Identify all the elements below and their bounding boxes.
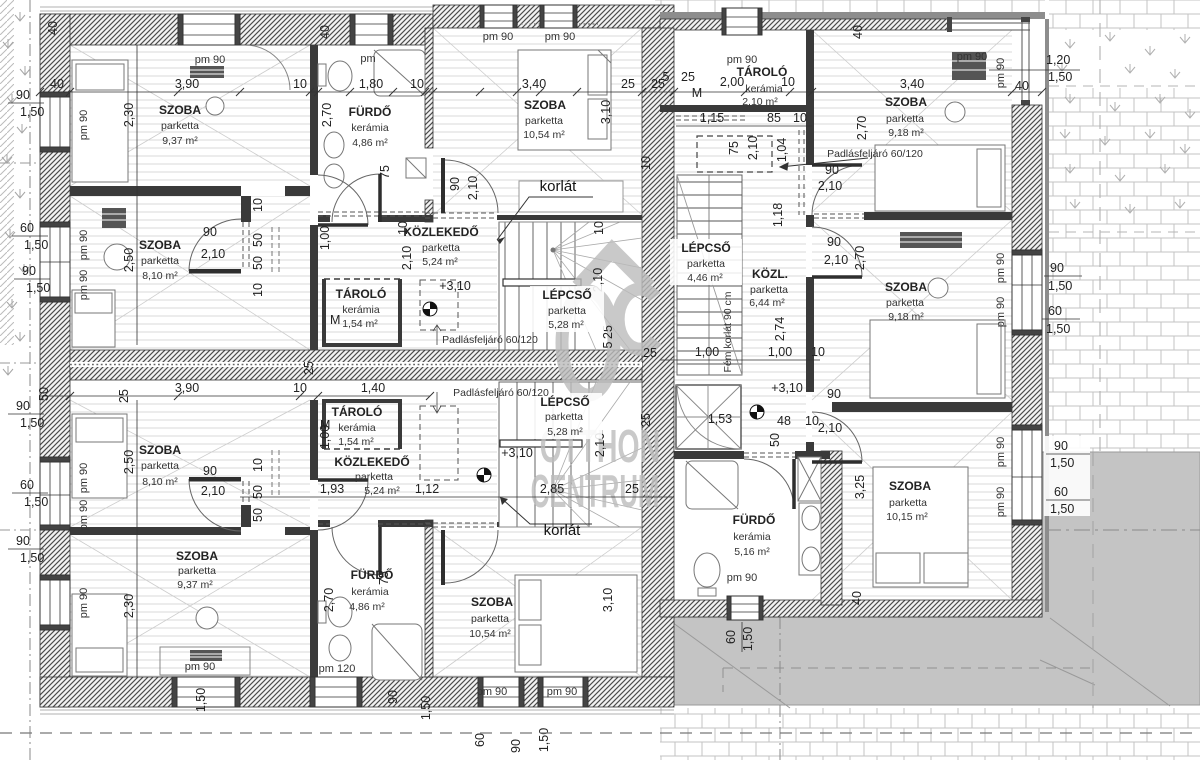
left margin dim stacks (8, 88, 50, 565)
window right wall W14 double (1012, 250, 1042, 335)
door arc corridor/SZOBA 8,10 lower (318, 480, 368, 530)
svg-text:1,50: 1,50 (20, 105, 44, 119)
room fill KOZLEKEDO lower (318, 400, 497, 527)
svg-text:90: 90 (827, 235, 841, 249)
room fill SZOBA 10,54 lower (433, 527, 642, 677)
svg-text:1,18: 1,18 (771, 203, 785, 227)
railing bar upper stair (503, 279, 581, 286)
room fill SZOBA 9,18 top (812, 30, 1012, 212)
svg-text:2,10: 2,10 (201, 484, 225, 498)
svg-text:85: 85 (767, 111, 781, 125)
svg-text:50: 50 (37, 387, 51, 401)
svg-text:1,93: 1,93 (320, 482, 344, 496)
svg-text:2,30: 2,30 (122, 594, 136, 618)
window top wall W2 bath (350, 14, 393, 45)
outer wall left (40, 14, 70, 707)
room fill SZOBA 8,10 upper (70, 196, 310, 350)
dim line right wing y122 (676, 125, 812, 127)
svg-text:10: 10 (805, 414, 819, 428)
svg-text:5,16 m²: 5,16 m² (734, 546, 770, 558)
bottom property dashed line (0, 732, 1200, 734)
svg-text:1,50: 1,50 (1048, 70, 1072, 84)
corridor opening dashed upper (318, 212, 425, 216)
terrain marks left margin (2, 12, 30, 375)
svg-text:10,54 m²: 10,54 m² (523, 129, 565, 141)
TAROLO 2,00 bottom wall (660, 105, 812, 112)
svg-text:1,53: 1,53 (708, 412, 732, 426)
svg-text:kerámia: kerámia (351, 586, 389, 598)
svg-text:10: 10 (592, 221, 606, 235)
svg-text:1,50: 1,50 (26, 281, 50, 295)
svg-text:25: 25 (625, 482, 639, 496)
svg-text:3,10: 3,10 (601, 588, 615, 612)
svg-text:pm 90: pm 90 (995, 297, 1007, 328)
label FURDO 5,16 (733, 512, 776, 558)
walls (40, 5, 1049, 714)
svg-text:60: 60 (1048, 304, 1062, 318)
svg-text:pm 90: pm 90 (477, 686, 508, 698)
dim line top y92 (40, 91, 1042, 93)
washbasin counter FURDO 5,16 (799, 503, 821, 575)
svg-text:90: 90 (1050, 261, 1064, 275)
window top wall W1 (178, 14, 240, 45)
svg-text:75: 75 (727, 141, 741, 155)
svg-text:Padlásfeljáró 60/120: Padlásfeljáró 60/120 (827, 148, 923, 160)
window right wall W15 double (1012, 425, 1042, 525)
bed SZOBA 10,15 double (873, 467, 968, 587)
svg-text:90: 90 (509, 739, 523, 753)
shower FURDO 5,16 (686, 461, 738, 509)
partition FURDO top lower (318, 520, 330, 527)
svg-text:90: 90 (1054, 439, 1068, 453)
desk SZOBA 8,10 upper (102, 208, 126, 228)
svg-text:25: 25 (643, 346, 657, 360)
svg-text:1,50: 1,50 (1048, 279, 1072, 293)
wall SZOBA 10,15 top (832, 402, 1012, 412)
svg-text:1,50: 1,50 (20, 551, 44, 565)
svg-text:kerámia: kerámia (733, 531, 771, 543)
attic hatch dashed right wing (697, 136, 772, 172)
bed SZOBA 9,18 mid (870, 320, 1005, 398)
svg-text:3,25: 3,25 (853, 475, 867, 499)
svg-text:parketta: parketta (141, 255, 179, 267)
svg-text:2,74: 2,74 (773, 317, 787, 341)
arrow down niche lower (433, 392, 441, 413)
svg-text:40: 40 (850, 591, 864, 605)
bottom rotated dims (194, 627, 755, 753)
window bottom wall W9 (172, 677, 240, 707)
svg-text:pm 90: pm 90 (547, 686, 578, 698)
divider SZOBA 9,18 rooms (864, 212, 1012, 220)
watermark letter O (562, 291, 614, 395)
svg-text:5: 5 (663, 70, 670, 84)
svg-text:40: 40 (851, 25, 865, 39)
svg-text:pm 90: pm 90 (727, 572, 758, 584)
door arc SZOBA 10,15 (812, 412, 862, 462)
svg-text:1,50: 1,50 (20, 416, 44, 430)
svg-text:50: 50 (768, 433, 782, 447)
svg-text:1,12: 1,12 (415, 482, 439, 496)
room fill SZOBA 8,10 lower (70, 400, 310, 527)
svg-text:pm 90: pm 90 (78, 463, 90, 494)
leader attic hatch right wing (780, 158, 868, 170)
corridor wall right wing seg3 (806, 277, 814, 392)
label TAROLO lower (332, 404, 383, 448)
svg-text:1,00: 1,00 (768, 345, 792, 359)
svg-text:4,86 m²: 4,86 m² (352, 137, 388, 149)
construction diagonal SZOBA 8,10 upper (70, 196, 310, 350)
svg-text:40: 40 (46, 21, 60, 35)
svg-text:kerámia: kerámia (745, 83, 783, 95)
svg-text:2,30: 2,30 (122, 103, 136, 127)
party wall horizontal (70, 350, 642, 380)
door arc SZOBA 8,10 lower (189, 479, 241, 531)
label KOZLEKEDO upper (403, 224, 478, 268)
room fill SZOBA 10,54 upper (433, 28, 642, 215)
svg-text:75: 75 (378, 165, 392, 179)
label FURDO upper (349, 104, 392, 149)
leader korlat lower (500, 497, 592, 524)
chair SZOBA 9,18 top (945, 102, 965, 122)
svg-text:SZOBA: SZOBA (139, 443, 181, 457)
TAROLO 1,54 upper box (324, 279, 400, 345)
dim line right wing y360 (660, 359, 820, 361)
door arc entry SZOBA 9,37 upper (245, 45, 290, 90)
svg-text:kerámia: kerámia (342, 304, 380, 316)
svg-text:60: 60 (724, 630, 738, 644)
furniture (72, 50, 1005, 680)
svg-text:3,90: 3,90 (175, 77, 199, 91)
window left wall W7 double (40, 457, 70, 530)
svg-text:pm 90: pm 90 (995, 253, 1007, 284)
svg-text:2,50: 2,50 (122, 248, 136, 272)
room fill FURDO upper (318, 45, 425, 215)
label SZOBA 10,15 (886, 479, 931, 523)
svg-text:SZOBA: SZOBA (139, 238, 181, 252)
dim texts top row (50, 70, 924, 100)
svg-text:parketta: parketta (178, 565, 216, 577)
svg-text:1,00: 1,00 (695, 345, 719, 359)
svg-text:M: M (330, 313, 340, 327)
door arc SZOBA 8,10 upper (189, 219, 241, 271)
svg-text:10: 10 (639, 156, 653, 170)
svg-text:parketta: parketta (889, 497, 927, 509)
svg-text:KÖZLEKEDŐ: KÖZLEKEDŐ (334, 454, 409, 469)
svg-text:parketta: parketta (525, 115, 563, 127)
label SZOBA 8,10 upper (139, 238, 181, 282)
door arc FURDO upper (332, 174, 380, 222)
brick zone guide dashes (1099, 0, 1101, 452)
corridor wall right wing seg1 (806, 30, 814, 165)
svg-text:1,54 m²: 1,54 m² (342, 318, 378, 330)
arrow up niche upper (433, 325, 441, 345)
door arc SZOBA 9,18 top (812, 165, 862, 215)
toilet FURDO 5,16 (694, 553, 720, 596)
svg-text:SZOBA: SZOBA (471, 595, 513, 609)
window mid-top W3 (480, 5, 517, 28)
wall FURDO right lower (425, 520, 433, 677)
room fill SZOBA 10,15 (812, 412, 1012, 600)
svg-text:parketta: parketta (545, 411, 583, 423)
sink FURDO upper (324, 132, 344, 158)
eaves line above top wall (40, 7, 660, 11)
room fill SZOBA 9,37 lower (70, 535, 310, 677)
sink FURDO lower (329, 635, 351, 661)
label LEPCSO upper (530, 286, 604, 332)
construction diagonal SZOBA 10,54 upper (433, 28, 642, 215)
svg-text:2,70: 2,70 (322, 588, 336, 612)
svg-text:2,10 m²: 2,10 m² (742, 96, 778, 108)
partition FURDO bottom upper (318, 215, 330, 222)
door arc SZOBA 9,18 mid (812, 227, 862, 277)
svg-text:8,10 m²: 8,10 m² (142, 270, 178, 282)
svg-text:9,37 m²: 9,37 m² (162, 135, 198, 147)
gallery rail SZOBA 10,54 lower (497, 522, 642, 527)
svg-text:pm 90: pm 90 (995, 487, 1007, 518)
svg-text:90: 90 (386, 690, 400, 704)
chair SZOBA 9,37 upper (206, 97, 224, 115)
winder stair box right wing (676, 385, 741, 449)
plot boundary dash-dot line left (29, 0, 31, 760)
wall FURDO 5,16 top (674, 451, 744, 459)
svg-text:90: 90 (203, 464, 217, 478)
dim row lower unit y390 (40, 395, 430, 397)
svg-text:4,46 m²: 4,46 m² (687, 272, 723, 284)
svg-text:parketta: parketta (471, 613, 509, 625)
watermark roof (578, 250, 649, 287)
window left wall W6 double (40, 222, 70, 302)
svg-text:pm 90: pm 90 (545, 31, 576, 43)
label LEPCSO lower (528, 393, 602, 439)
room fill KOZLEKEDO upper + TAROLO zone (318, 222, 497, 350)
svg-text:50: 50 (251, 256, 265, 270)
svg-text:1,50: 1,50 (24, 238, 48, 252)
svg-text:50: 50 (251, 485, 265, 499)
svg-text:1,40: 1,40 (361, 381, 385, 395)
sill dotted line mid-top (480, 23, 598, 25)
pm labels horizontal (185, 31, 988, 698)
svg-text:2,10: 2,10 (824, 253, 848, 267)
window bottom wall W12 (538, 677, 588, 707)
label SZOBA 10,54 upper (523, 98, 566, 141)
svg-text:+3,10: +3,10 (771, 381, 803, 395)
survey point upper unit (423, 302, 437, 316)
room fill SZOBA 9,37 upper (70, 45, 310, 186)
svg-text:60: 60 (20, 221, 34, 235)
stairs (499, 175, 742, 527)
survey point lower unit (477, 468, 491, 482)
svg-text:parketta: parketta (886, 113, 924, 125)
svg-text:parketta: parketta (355, 471, 393, 483)
svg-text:pm 90: pm 90 (195, 54, 226, 66)
svg-text:5: 5 (601, 341, 615, 348)
svg-text:SZOBA: SZOBA (176, 549, 218, 563)
partition bedrooms/corridor upper (310, 45, 318, 175)
svg-text:TÁROLÓ: TÁROLÓ (737, 64, 788, 79)
outer wall top left unit (40, 14, 433, 45)
TAROLO 2,00 opening dashed (676, 116, 745, 120)
partition SZOBA 8,10/9,37 lower (70, 527, 241, 535)
watermark letter C (618, 289, 656, 349)
svg-text:pm 90: pm 90 (185, 661, 216, 673)
outer wall top middle block (433, 5, 674, 28)
brick strip above right wing (655, 0, 1045, 12)
svg-text:4,86 m²: 4,86 m² (349, 601, 385, 613)
svg-text:90: 90 (16, 88, 30, 102)
svg-text:2,50: 2,50 (122, 450, 136, 474)
bed SZOBA 8,10 upper (72, 290, 115, 347)
closet SZOBA 10,54 upper (519, 181, 623, 212)
desk SZOBA 9,18 mid (900, 232, 962, 248)
chair SZOBA 9,18 mid (928, 278, 948, 298)
svg-text:9,37 m²: 9,37 m² (177, 579, 213, 591)
svg-text:2,70: 2,70 (320, 103, 334, 127)
eaves line below bottom wall (40, 710, 674, 714)
door arc FURDO 5,16 (744, 459, 794, 509)
chair SZOBA 9,37 lower (196, 607, 218, 629)
svg-text:FÜRDŐ: FÜRDŐ (733, 512, 776, 527)
construction diagonal SZOBA 9,37 lower (70, 535, 310, 677)
door dim labels (201, 163, 848, 498)
pm labels vertical right wall (995, 58, 1007, 518)
construction diagonal SZOBA 9,18 top (812, 30, 1012, 212)
toilet FURDO lower (318, 597, 352, 627)
svg-text:SZOBA: SZOBA (885, 95, 927, 109)
bed SZOBA 9,18 top (875, 145, 1005, 211)
svg-text:2,10: 2,10 (818, 421, 842, 435)
svg-text:+3,10: +3,10 (501, 446, 533, 460)
wall FURDO right upper (425, 28, 433, 148)
door arc FURDO lower (332, 527, 380, 575)
room fill TAROLO 2,00 right wing (665, 30, 812, 105)
TAROLO 1,54 lower box (324, 401, 400, 449)
label KOZLEKEDO lower (334, 454, 409, 497)
svg-text:1,50: 1,50 (1046, 322, 1070, 336)
svg-text:5,28 m²: 5,28 m² (547, 426, 583, 438)
label SZOBA 9,37 upper (159, 103, 201, 147)
svg-text:1,50: 1,50 (741, 627, 755, 651)
svg-text:2,10: 2,10 (400, 246, 414, 270)
window bottom wall W10 (310, 677, 362, 707)
svg-text:pm 90: pm 90 (995, 437, 1007, 468)
corridor boundary dashes (799, 130, 804, 215)
room fill corridor KOZL right wing (674, 112, 806, 451)
terrain marks right column (1057, 32, 1195, 213)
staircase right wing (677, 175, 742, 375)
svg-text:90: 90 (203, 225, 217, 239)
svg-text:9,18 m²: 9,18 m² (888, 311, 924, 323)
shower FURDO lower (372, 624, 422, 680)
svg-text:parketta: parketta (548, 305, 586, 317)
svg-text:9,18 m²: 9,18 m² (888, 127, 924, 139)
partition bedrooms/corridor lower (310, 400, 318, 480)
svg-text:1,15: 1,15 (700, 111, 724, 125)
svg-text:M: M (692, 86, 702, 100)
svg-text:pm 90: pm 90 (78, 110, 90, 141)
svg-text:10: 10 (251, 198, 265, 212)
svg-text:48: 48 (777, 414, 791, 428)
terrace gray (665, 452, 1200, 705)
construction diagonal SZOBA 8,10 lower (70, 400, 310, 527)
wall stub SZOBA 8,10 lower (241, 505, 251, 527)
roof edge bar right wing (660, 12, 1045, 19)
dim row lower corridor y497 (240, 496, 674, 498)
svg-text:10: 10 (793, 111, 807, 125)
label SZOBA 9,18 mid (885, 280, 927, 323)
corner window band top-right (950, 19, 1030, 30)
construction diagonal SZOBA 10,54 lower (433, 527, 642, 677)
svg-text:6,44 m²: 6,44 m² (749, 297, 785, 309)
svg-text:10: 10 (293, 381, 307, 395)
construction diagonal SZOBA 9,18 mid (812, 220, 1012, 400)
svg-text:pm: pm (360, 53, 375, 65)
radiator SZOBA 9,37 upper (190, 66, 224, 78)
svg-text:40: 40 (50, 77, 64, 91)
svg-text:90: 90 (22, 264, 36, 278)
svg-text:pm 90: pm 90 (78, 500, 90, 531)
label LEPCSO right wing (670, 239, 742, 285)
washer FURDO upper (406, 158, 426, 178)
windows (40, 5, 1042, 707)
svg-text:SZOBA: SZOBA (524, 98, 566, 112)
svg-text:60: 60 (473, 733, 487, 747)
desk SZOBA 9,18 top (952, 52, 986, 80)
svg-text:3,90: 3,90 (175, 381, 199, 395)
outer wall right (1012, 105, 1042, 617)
svg-text:5,24 m²: 5,24 m² (364, 485, 400, 497)
svg-text:5,24 m²: 5,24 m² (422, 256, 458, 268)
svg-text:pm 120: pm 120 (319, 663, 356, 675)
desk SZOBA 9,37 lower (160, 647, 250, 675)
outer wall bottom right wing (660, 600, 1042, 617)
staircase lower unit (499, 382, 642, 527)
svg-text:kerámia: kerámia (351, 122, 389, 134)
svg-text:M: M (320, 418, 330, 432)
dim stacks on terrace edge (1044, 436, 1090, 516)
label TAROLO 2,00 (737, 64, 788, 108)
room parquet fills (70, 28, 1012, 677)
svg-text:25: 25 (621, 77, 635, 91)
svg-text:TÁROLÓ: TÁROLÓ (332, 404, 383, 419)
cabinet FURDO 5,16 (798, 457, 821, 501)
svg-text:SZOBA: SZOBA (159, 103, 201, 117)
svg-text:3,40: 3,40 (522, 77, 546, 91)
svg-text:3,40: 3,40 (900, 77, 924, 91)
partition SZOBA 9,37/8,10 upper (70, 186, 241, 196)
wardrobe dashed niche lower (420, 406, 458, 480)
wall stub SZOBA 8,10 upper (241, 196, 251, 222)
svg-text:parketta: parketta (687, 258, 725, 270)
svg-text:60: 60 (1054, 485, 1068, 499)
svg-text:korlát: korlát (544, 522, 582, 539)
wall FURDO 5,16 / SZOBA 10,15 (821, 451, 842, 605)
bed SZOBA 10,54 lower (515, 575, 637, 672)
svg-text:10: 10 (293, 77, 307, 91)
svg-text:LÉPCSŐ: LÉPCSŐ (542, 287, 591, 302)
room fill FURDO lower (318, 527, 425, 677)
roof edge line right (1045, 19, 1049, 612)
svg-text:pm 90: pm 90 (78, 588, 90, 619)
svg-text:5,28 m²: 5,28 m² (548, 319, 584, 331)
svg-text:FÜRDŐ: FÜRDŐ (351, 567, 394, 582)
svg-text:kerámia: kerámia (338, 422, 376, 434)
railing bar lower stair (500, 440, 582, 447)
svg-text:Fém korlát 90 cm: Fém korlát 90 cm (722, 291, 734, 372)
party wall vertical (642, 28, 674, 677)
svg-text:1,50: 1,50 (1050, 502, 1074, 516)
svg-text:25: 25 (302, 361, 316, 375)
svg-text:parketta: parketta (422, 242, 460, 254)
